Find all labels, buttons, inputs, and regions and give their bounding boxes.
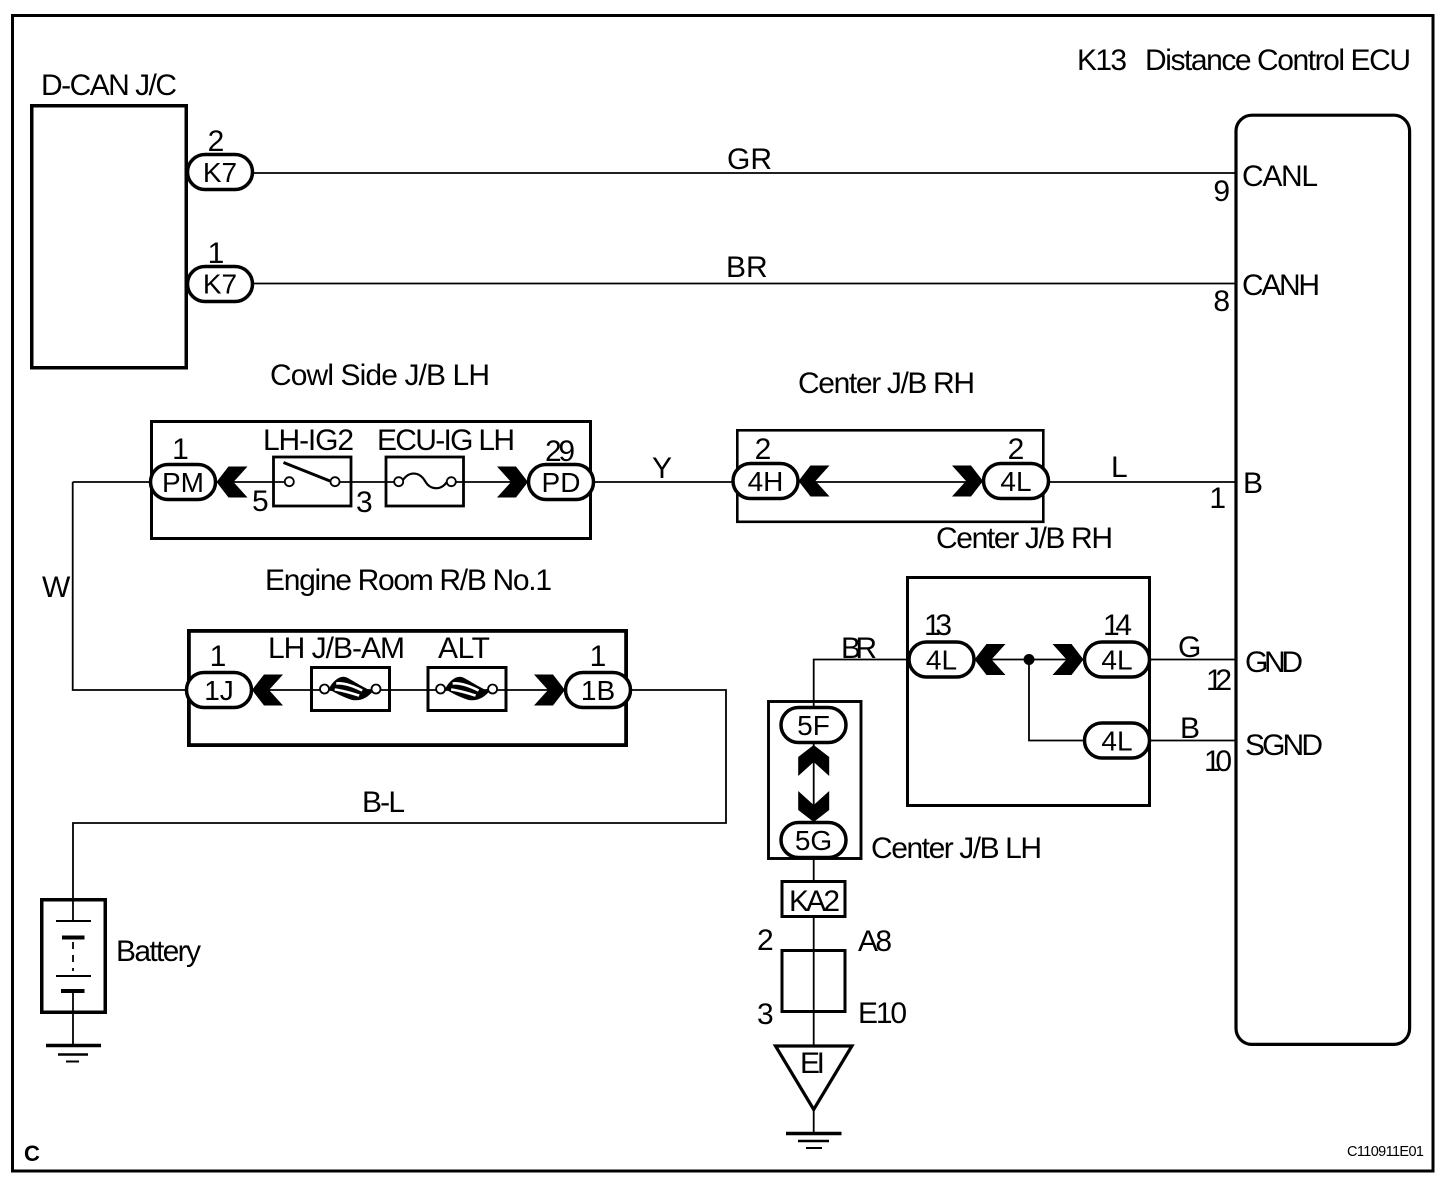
svg-text:D-CAN J/C: D-CAN J/C: [41, 69, 177, 102]
svg-text:BR: BR: [841, 632, 877, 665]
svg-text:SGND: SGND: [1245, 729, 1323, 762]
svg-text:LH J/B-AM: LH J/B-AM: [268, 632, 405, 665]
svg-text:E10: E10: [858, 997, 907, 1030]
svg-text:3: 3: [757, 998, 774, 1031]
svg-text:Cowl Side J/B LH: Cowl Side J/B LH: [270, 359, 490, 392]
svg-text:Distance Control ECU: Distance Control ECU: [1145, 44, 1411, 77]
svg-text:BR: BR: [726, 251, 768, 284]
svg-text:2: 2: [757, 924, 774, 957]
svg-text:4L: 4L: [926, 645, 957, 676]
svg-text:W: W: [42, 571, 71, 604]
svg-text:Battery: Battery: [116, 935, 201, 968]
svg-text:A8: A8: [858, 925, 892, 958]
svg-text:ALT: ALT: [438, 632, 490, 665]
svg-text:4L: 4L: [1000, 466, 1031, 497]
svg-text:4L: 4L: [1101, 645, 1132, 676]
svg-text:K7: K7: [203, 269, 237, 300]
svg-text:5G: 5G: [795, 825, 832, 856]
svg-text:EI: EI: [800, 1047, 825, 1080]
svg-text:C: C: [24, 1141, 40, 1166]
svg-text:10: 10: [1204, 745, 1232, 778]
svg-text:13: 13: [924, 609, 952, 642]
svg-text:CANH: CANH: [1242, 269, 1320, 302]
svg-text:Center J/B RH: Center J/B RH: [936, 522, 1113, 555]
svg-text:9: 9: [1213, 175, 1230, 208]
svg-text:L: L: [1111, 451, 1128, 484]
svg-text:K13: K13: [1077, 44, 1127, 77]
svg-text:B: B: [1243, 467, 1263, 500]
svg-text:1: 1: [210, 640, 227, 673]
svg-text:1: 1: [208, 237, 225, 270]
svg-text:1: 1: [172, 433, 189, 466]
svg-text:PD: PD: [542, 467, 581, 498]
svg-text:5: 5: [252, 485, 269, 518]
svg-text:B-L: B-L: [362, 786, 405, 819]
svg-text:CANL: CANL: [1242, 160, 1318, 193]
svg-text:GND: GND: [1245, 646, 1303, 679]
svg-text:1: 1: [590, 640, 607, 673]
svg-text:2: 2: [208, 125, 225, 158]
svg-text:G: G: [1178, 631, 1201, 664]
svg-text:14: 14: [1103, 609, 1132, 642]
svg-text:ECU-IG LH: ECU-IG LH: [377, 424, 515, 457]
svg-text:GR: GR: [727, 143, 772, 176]
svg-text:KA2: KA2: [789, 885, 840, 918]
svg-text:4L: 4L: [1101, 726, 1132, 757]
svg-text:Y: Y: [652, 452, 672, 485]
svg-text:Engine Room R/B No.1: Engine Room R/B No.1: [265, 564, 552, 597]
svg-text:1J: 1J: [204, 675, 234, 706]
svg-text:29: 29: [545, 435, 575, 468]
svg-text:K7: K7: [203, 157, 237, 188]
svg-text:1: 1: [1209, 482, 1226, 515]
svg-text:B: B: [1180, 712, 1200, 745]
svg-text:PM: PM: [162, 467, 204, 498]
svg-text:4H: 4H: [748, 466, 784, 497]
svg-text:Center J/B RH: Center J/B RH: [798, 367, 975, 400]
svg-text:C110911E01: C110911E01: [1347, 1144, 1424, 1160]
svg-text:5F: 5F: [797, 710, 830, 741]
svg-text:2: 2: [1008, 433, 1025, 466]
svg-text:2: 2: [755, 433, 772, 466]
svg-text:8: 8: [1213, 285, 1230, 318]
svg-text:3: 3: [356, 486, 373, 519]
svg-text:1B: 1B: [581, 675, 615, 706]
svg-text:Center J/B LH: Center J/B LH: [871, 832, 1042, 865]
svg-text:12: 12: [1206, 664, 1232, 697]
svg-text:LH-IG2: LH-IG2: [263, 424, 354, 457]
